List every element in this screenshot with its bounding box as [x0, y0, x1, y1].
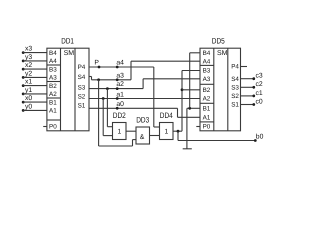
wire DD2 out to DD3 upper input [126, 130, 136, 132]
node P (label dot) [94, 59, 100, 68]
svg-text:y0: y0 [25, 103, 32, 110]
svg-text:DD2: DD2 [113, 111, 126, 120]
svg-text:S4: S4 [78, 74, 86, 81]
svg-text:y2: y2 [25, 70, 32, 77]
output c3 [241, 73, 263, 81]
svg-text:DD3: DD3 [136, 115, 149, 124]
DD1 P0 stub [43, 126, 47, 128]
svg-text:A2: A2 [203, 96, 211, 103]
adder DD5 [200, 37, 241, 131]
ground net [187, 53, 200, 149]
wire a3 branch to DD3 lower input [97, 78, 136, 146]
svg-text:A4: A4 [203, 58, 211, 65]
svg-text:B2: B2 [49, 83, 57, 90]
gate DD3 (AND) [136, 115, 150, 144]
input y0 [22, 103, 47, 111]
svg-text:c1: c1 [256, 90, 263, 97]
svg-text:y3: y3 [25, 54, 32, 61]
DD5 P4 stub [241, 66, 248, 68]
svg-text:c0: c0 [256, 98, 263, 105]
svg-text:DD1: DD1 [61, 37, 74, 46]
svg-text:A1: A1 [49, 108, 57, 115]
wire K (DD4 output) [173, 130, 182, 132]
svg-text:y1: y1 [25, 87, 32, 94]
wire a2 branch to DD2 upper input [106, 87, 113, 127]
svg-text:P4: P4 [231, 64, 239, 71]
svg-text:a2: a2 [116, 81, 124, 88]
svg-text:SM: SM [64, 50, 75, 57]
gate DD2 (OR) [113, 111, 127, 139]
svg-text:SM: SM [217, 50, 228, 57]
input y3 [22, 54, 47, 62]
svg-text:S1: S1 [231, 102, 239, 109]
DD5 P0 stub [196, 126, 200, 128]
svg-text:B4: B4 [49, 50, 57, 57]
svg-text:S3: S3 [78, 84, 86, 91]
svg-text:A1: A1 [203, 115, 211, 122]
node b0 [254, 134, 264, 142]
svg-text:S3: S3 [231, 85, 239, 92]
wire a1 (DD1.S2 to DD5.A2) [89, 98, 200, 100]
svg-text:x3: x3 [25, 46, 32, 53]
adder DD1 [47, 37, 89, 131]
output c1 [241, 90, 263, 98]
node a0 (label dot) [116, 101, 124, 110]
svg-text:S2: S2 [231, 93, 239, 100]
output c2 [241, 81, 263, 89]
svg-text:b0: b0 [256, 134, 264, 141]
node a1 (label dot) [116, 91, 124, 100]
wire a1 branch to DD2 lower input [102, 97, 113, 136]
wire a3 (DD1.S4 to DD5.A4) [89, 61, 200, 80]
svg-text:c2: c2 [256, 81, 263, 88]
svg-text:a3: a3 [116, 72, 124, 79]
svg-text:DD5: DD5 [212, 37, 225, 46]
svg-text:a1: a1 [116, 91, 124, 98]
svg-text:c3: c3 [256, 73, 263, 80]
svg-text:B3: B3 [49, 66, 57, 73]
ground symbol [183, 148, 192, 150]
wire DD3 out to DD4 lower input [150, 135, 160, 137]
output c0 [241, 98, 263, 106]
node a2 (label dot) [116, 81, 124, 90]
svg-text:a4: a4 [116, 59, 124, 66]
svg-text:P0: P0 [49, 124, 57, 131]
node K junction [177, 130, 180, 133]
svg-text:S2: S2 [78, 94, 86, 101]
svg-text:A3: A3 [49, 75, 57, 82]
svg-text:1: 1 [118, 129, 122, 136]
input x0 [22, 95, 47, 103]
svg-text:&: & [140, 134, 145, 141]
svg-text:A3: A3 [203, 76, 211, 83]
wire P (carry from DD1.P4, routed to DD4 input) [89, 67, 160, 127]
input x1 [22, 79, 47, 87]
svg-text:x2: x2 [25, 62, 32, 69]
svg-text:A2: A2 [49, 91, 57, 98]
svg-text:B3: B3 [203, 68, 211, 75]
gate DD4 (OR) [160, 111, 174, 139]
input y1 [22, 87, 47, 95]
node a3 (label dot) [116, 72, 124, 81]
input x3 [22, 46, 47, 54]
svg-text:A4: A4 [49, 58, 57, 65]
svg-text:1: 1 [165, 129, 169, 136]
input x2 [22, 62, 47, 70]
svg-text:x0: x0 [25, 95, 32, 102]
svg-text:S4: S4 [231, 76, 239, 83]
svg-text:DD4: DD4 [160, 111, 173, 120]
svg-text:B1: B1 [49, 99, 57, 106]
svg-text:P4: P4 [78, 64, 86, 71]
input y2 [22, 70, 47, 78]
svg-text:a0: a0 [116, 101, 124, 108]
svg-text:x1: x1 [25, 79, 32, 86]
node a4 (label dot on carry wire) [116, 59, 124, 68]
wire a2 (DD1.S3 to DD5.A3) [89, 79, 200, 89]
svg-text:P0: P0 [203, 124, 211, 131]
svg-text:B4: B4 [203, 50, 211, 57]
wire b0 (carry out) [178, 131, 255, 140]
wire K riser to DD5.B3 and DD5.B2 [181, 71, 200, 132]
svg-text:P: P [94, 59, 99, 66]
svg-text:S1: S1 [78, 103, 86, 110]
svg-text:B2: B2 [203, 87, 211, 94]
svg-text:B1: B1 [203, 106, 211, 113]
wire a0 (DD1.S1 to DD5.A1) [89, 108, 200, 117]
